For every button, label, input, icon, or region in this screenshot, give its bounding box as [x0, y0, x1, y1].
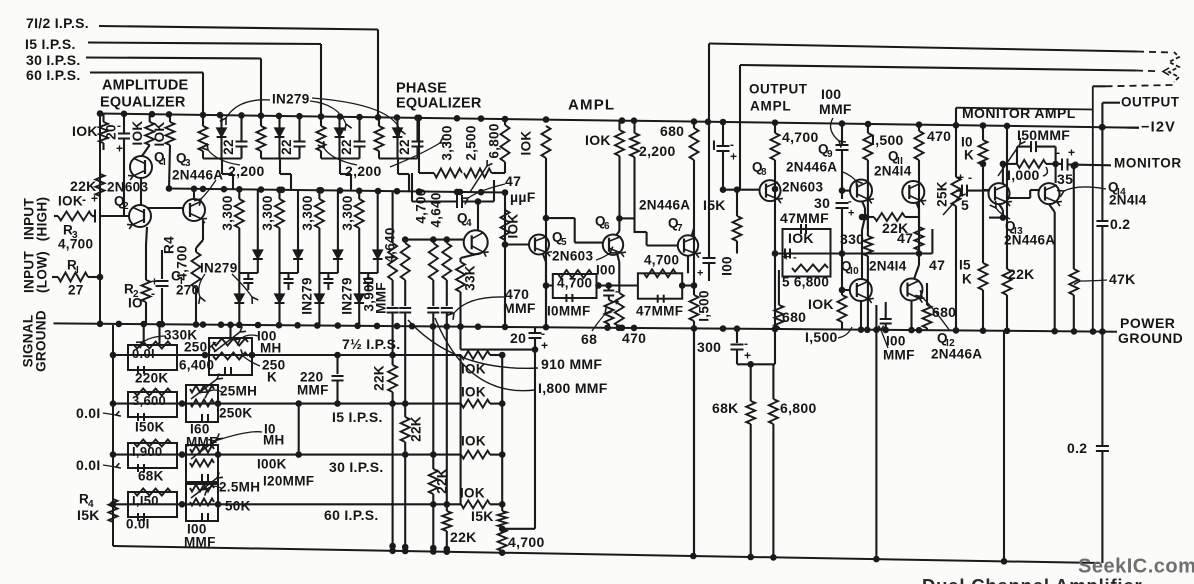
- svg-text:I,800 MMF: I,800 MMF: [538, 380, 608, 396]
- wire cell 1 bus: [203, 157, 242, 159]
- junction: [916, 327, 923, 334]
- svg-text:I0MMF: I0MMF: [547, 304, 591, 319]
- wire 10K ladder left rail: [460, 355, 462, 504]
- inductor box row 4: [186, 484, 218, 521]
- svg-text:7½ I.P.S.: 7½ I.P.S.: [342, 336, 400, 352]
- junction: [502, 189, 509, 196]
- capacitor C1 270: [161, 250, 163, 279]
- junction: [1071, 328, 1078, 335]
- junction: [772, 119, 779, 126]
- record head dashed coil: [1169, 52, 1179, 82]
- wire bus 15ips: [88, 43, 321, 45]
- junction: [318, 187, 325, 194]
- svg-text:-: -: [82, 192, 86, 206]
- junction: [193, 321, 200, 328]
- svg-text:2N603: 2N603: [107, 180, 148, 195]
- svg-text:-: -: [1056, 145, 1060, 159]
- svg-text:IN279: IN279: [300, 277, 315, 315]
- junction: [1099, 124, 1106, 131]
- junction: [218, 321, 225, 328]
- junction: [276, 113, 283, 120]
- svg-text:30 I.P.S.: 30 I.P.S.: [26, 52, 81, 68]
- junction: [200, 112, 207, 119]
- svg-text:4: 4: [466, 218, 472, 229]
- transistor Q14: [1039, 183, 1060, 204]
- callout arc to diode cell1: [226, 100, 270, 118]
- svg-text:30: 30: [814, 195, 830, 211]
- svg-text:−I2V: −I2V: [1141, 119, 1176, 135]
- junction: [604, 324, 611, 331]
- svg-text:68K: 68K: [712, 400, 739, 416]
- junction: [200, 321, 207, 328]
- transistor Q12: [901, 279, 923, 301]
- svg-text:K: K: [964, 148, 974, 163]
- svg-text:470: 470: [622, 330, 646, 346]
- svg-text:OUTPUT: OUTPUT: [1121, 95, 1180, 110]
- wire to 68K 6800: [737, 363, 775, 365]
- svg-text:22: 22: [339, 139, 354, 155]
- wire Q13 emitter-Q14 base: [1008, 197, 1030, 199]
- wire ips row 1: [113, 354, 461, 356]
- svg-text:IOK: IOK: [506, 214, 521, 239]
- svg-text:2,200: 2,200: [345, 163, 382, 179]
- svg-text:I00: I00: [886, 334, 906, 349]
- junction: [873, 327, 880, 334]
- junction: [140, 321, 147, 328]
- diode 1N279 lower-b number 3: [314, 294, 324, 303]
- wire cell bus lower 3: [319, 272, 338, 274]
- svg-text:(HIGH): (HIGH): [35, 197, 50, 242]
- junction bottom: [690, 553, 697, 560]
- svg-text:K: K: [962, 272, 972, 287]
- svg-text:3,300: 3,300: [260, 195, 275, 230]
- svg-text:2N603: 2N603: [782, 180, 823, 195]
- svg-text:680: 680: [782, 309, 806, 325]
- wire feedback line: [775, 252, 932, 254]
- svg-text:3,300: 3,300: [300, 195, 315, 230]
- resistor 1,000 pot: [1017, 160, 1046, 168]
- svg-text:I,500: I,500: [805, 329, 838, 345]
- wire cell bus lower 1: [239, 272, 257, 274]
- svg-text:MMF: MMF: [503, 300, 536, 316]
- diode 1N279 lower-b number 2: [275, 294, 285, 303]
- transistor Q4: [464, 230, 488, 254]
- svg-text:MONITOR AMPL: MONITOR AMPL: [962, 105, 1076, 121]
- svg-text:5: 5: [961, 197, 969, 213]
- wire input columns: [123, 139, 125, 217]
- junction: [166, 185, 173, 192]
- svg-text:I0: I0: [850, 266, 859, 277]
- wire cell bus lower 2: [280, 272, 299, 274]
- svg-text:EQUALIZER: EQUALIZER: [100, 94, 186, 110]
- svg-text:2N4I4: 2N4I4: [869, 259, 907, 274]
- svg-text:I: I: [163, 157, 166, 168]
- junction: [475, 323, 482, 330]
- wire Q10 base: [842, 289, 849, 291]
- junction: [191, 186, 198, 193]
- junction row 3: [179, 451, 186, 458]
- svg-text:6,800: 6,800: [487, 123, 502, 158]
- diode 1N279 lower-a number 3: [337, 191, 339, 251]
- wire lower-left border: [112, 325, 114, 546]
- svg-text:IOK: IOK: [461, 385, 486, 400]
- svg-text:2N446A: 2N446A: [639, 198, 690, 213]
- equalizer cell 2 resistor: [260, 116, 262, 126]
- svg-text:MMF: MMF: [819, 101, 852, 117]
- junction: [502, 324, 509, 331]
- RC box row 1: [128, 345, 177, 370]
- junction: [1090, 328, 1097, 335]
- svg-text:0.2: 0.2: [1110, 216, 1130, 232]
- svg-text:3,300: 3,300: [440, 125, 455, 160]
- capacitor small cell 3: [327, 273, 329, 278]
- transistor Q2: [129, 205, 151, 227]
- wire cell 4 drop: [397, 159, 399, 175]
- junction: [1004, 123, 1011, 130]
- wire stubs from signal ground to row1 boxes: [143, 324, 145, 345]
- wire column x694 long: [693, 122, 695, 128]
- svg-text:IN279: IN279: [272, 92, 310, 107]
- wire output line 3 dashed: [1106, 85, 1174, 86]
- wire Q10 emitter: [860, 301, 862, 330]
- svg-text:6,400: 6,400: [179, 358, 214, 373]
- svg-text:POWER: POWER: [1120, 315, 1175, 331]
- svg-text:2N446A: 2N446A: [931, 347, 982, 362]
- junction: [116, 321, 123, 328]
- svg-text:2: 2: [123, 201, 129, 212]
- junction: [916, 121, 923, 128]
- resistor 47 on Q11 emitter: [916, 202, 919, 209]
- wire Q13 base: [983, 189, 989, 191]
- transistor Q9: [850, 180, 872, 202]
- wire Q4 emitter feedback to 20 cap: [459, 327, 461, 350]
- svg-text:µµF: µµF: [510, 189, 536, 205]
- svg-text:-: -: [848, 196, 852, 208]
- junction: [619, 325, 626, 332]
- RC box row 4: [128, 492, 177, 517]
- label 2N603 arrow: [596, 253, 610, 260]
- wire signal ground rail: [54, 323, 1118, 331]
- svg-text:5 6,800: 5 6,800: [782, 275, 829, 290]
- junction: [276, 322, 283, 329]
- svg-text:60 I.P.S.: 60 I.P.S.: [26, 67, 81, 83]
- svg-text:+: +: [116, 141, 123, 155]
- junction bottom: [873, 556, 880, 563]
- junction: [865, 121, 872, 128]
- svg-text:6,800: 6,800: [780, 400, 817, 416]
- wire cell 3 bus: [321, 157, 360, 159]
- monitor box: [956, 108, 1093, 110]
- junction: [430, 323, 437, 330]
- svg-text:MMF: MMF: [297, 383, 329, 398]
- svg-text:I5 I.P.S.: I5 I.P.S.: [25, 36, 76, 52]
- wire Q3 collector: [193, 190, 195, 199]
- svg-text:-: -: [968, 170, 972, 184]
- inductor box row 1: [209, 338, 252, 375]
- svg-text:3,600: 3,600: [132, 393, 166, 408]
- wire box2 to 1500: [682, 284, 694, 286]
- svg-text:MMF: MMF: [883, 348, 915, 363]
- svg-text:6: 6: [604, 221, 610, 232]
- junction: [772, 326, 779, 333]
- callout arc to diode cell4: [312, 98, 400, 130]
- svg-text:25K: 25K: [935, 181, 950, 207]
- svg-text:4,700: 4,700: [175, 245, 190, 280]
- junction: [457, 323, 464, 330]
- junction bottom: [499, 549, 506, 556]
- junction bottom: [389, 548, 396, 555]
- junction: [631, 325, 638, 332]
- capacitor 47MMF box: [783, 229, 831, 254]
- junction: [279, 187, 286, 194]
- svg-text:IN279: IN279: [340, 277, 355, 315]
- junction: [953, 122, 960, 129]
- junction bottom: [402, 548, 409, 555]
- cropped caption text: [922, 575, 1142, 584]
- junction: [543, 324, 550, 331]
- wire Q7 emitter: [687, 256, 689, 273]
- svg-text:35: 35: [1057, 171, 1073, 187]
- svg-text:470: 470: [927, 128, 951, 144]
- junction: [159, 321, 166, 328]
- svg-text:22K: 22K: [372, 365, 387, 391]
- svg-text:22: 22: [279, 139, 294, 155]
- junction bottom: [1001, 558, 1008, 565]
- wire Q7 collector: [692, 228, 695, 237]
- svg-text:7: 7: [677, 223, 683, 234]
- junction: [444, 236, 451, 243]
- wire Q5 emitter: [543, 254, 546, 262]
- svg-text:+: +: [848, 208, 855, 220]
- svg-text:60 I.P.S.: 60 I.P.S.: [324, 507, 379, 523]
- svg-text:IOK: IOK: [788, 230, 814, 246]
- capacitor cell 3: [358, 117, 360, 141]
- wire output terminal: [1102, 102, 1120, 104]
- svg-text:I5 I.P.S.: I5 I.P.S.: [332, 409, 383, 425]
- junction: [394, 323, 401, 330]
- capacitor small cell 2: [287, 273, 289, 278]
- junction: [478, 189, 485, 196]
- svg-text:47: 47: [897, 230, 913, 246]
- svg-text:330: 330: [840, 231, 864, 247]
- svg-text:2,200: 2,200: [639, 143, 676, 159]
- junction: [1099, 328, 1106, 335]
- svg-text:9: 9: [827, 149, 833, 160]
- junction bottom: [770, 554, 777, 561]
- junction: [294, 322, 301, 329]
- transistor Q6: [603, 235, 623, 255]
- junction bottom: [444, 548, 451, 555]
- wire Q12 emitter: [910, 300, 912, 330]
- wire cell 4 bus: [379, 157, 418, 159]
- transistor Q1: [130, 156, 152, 178]
- junction: [316, 187, 323, 194]
- svg-text:22K: 22K: [409, 416, 424, 442]
- capacitor 100 MMF bottom: [885, 302, 887, 318]
- junction: [409, 323, 416, 330]
- junction: [953, 327, 960, 334]
- svg-text:4,700: 4,700: [414, 188, 429, 223]
- svg-text:+: +: [730, 149, 737, 163]
- svg-text:2N446A: 2N446A: [1004, 233, 1055, 248]
- capacitor 47 uuF: [456, 195, 458, 208]
- callout arc to diode cell2: [310, 101, 346, 124]
- svg-text:0.0I: 0.0I: [126, 517, 150, 532]
- svg-text:3,300: 3,300: [340, 195, 355, 230]
- svg-text:MH: MH: [263, 433, 285, 448]
- wire bus 7.5ips: [99, 26, 378, 30]
- svg-text:+: +: [744, 348, 751, 362]
- junction: [97, 110, 104, 117]
- junction: [616, 325, 623, 332]
- wire chain: [418, 118, 420, 173]
- wire: [411, 173, 413, 202]
- svg-text:22: 22: [221, 139, 236, 155]
- capacitor cell 1: [240, 115, 242, 141]
- wire cell 2 drop: [279, 159, 281, 175]
- svg-text:250K: 250K: [219, 406, 252, 421]
- junction: [314, 322, 321, 329]
- svg-text:MMF: MMF: [374, 282, 389, 314]
- junction: [444, 323, 451, 330]
- junction: [236, 322, 243, 329]
- wire cell 3 drop: [339, 159, 341, 175]
- junction: [149, 111, 156, 118]
- wire -12V supply rail: [100, 114, 1139, 128]
- diode 1N279 lower-b number 4: [354, 294, 364, 303]
- resistor 2,200 ampl: [630, 133, 639, 157]
- wire feedback to ladder: [502, 528, 535, 530]
- wire output line 1: [709, 44, 1137, 52]
- junction: [318, 113, 325, 120]
- capacitor 100MMF q9 input: [841, 124, 843, 144]
- svg-text:27: 27: [68, 283, 84, 298]
- svg-text:0.0I: 0.0I: [76, 457, 101, 473]
- svg-text:I50MMF: I50MMF: [1017, 127, 1070, 143]
- svg-text:8: 8: [761, 167, 767, 178]
- wire Q4 base line: [403, 239, 463, 241]
- junction: [375, 114, 382, 121]
- junction: [705, 119, 712, 126]
- svg-text:4,700: 4,700: [782, 129, 819, 145]
- capacitor cell 2: [298, 116, 300, 141]
- junction: [227, 322, 234, 329]
- capacitor small cell 4: [367, 273, 369, 278]
- svg-text:220K: 220K: [135, 371, 168, 386]
- equalizer cell 1 resistor: [202, 115, 204, 126]
- svg-text:IO: IO: [128, 296, 143, 311]
- junction: [374, 323, 381, 330]
- junction: [356, 188, 363, 195]
- junction: [221, 186, 228, 193]
- junction: [691, 325, 698, 332]
- svg-text:4,640: 4,640: [429, 192, 444, 227]
- junction: [543, 116, 550, 123]
- svg-text:30 I.P.S.: 30 I.P.S.: [329, 459, 384, 475]
- junction: [236, 186, 243, 193]
- wire ips row 4: [113, 503, 461, 505]
- wire monitor line: [1068, 163, 1112, 166]
- wire Q2 collector: [148, 207, 183, 209]
- svg-text:I50K: I50K: [135, 420, 165, 435]
- junction: [454, 115, 461, 122]
- junction: [276, 187, 283, 194]
- wire bottom verticals: [693, 328, 695, 556]
- junction: [217, 112, 224, 119]
- svg-text:-: -: [151, 286, 155, 300]
- wire Q13 Q14 bottoms: [999, 204, 1003, 210]
- svg-text:+: +: [541, 338, 548, 352]
- svg-text:0.0I: 0.0I: [76, 405, 101, 421]
- svg-text:47: 47: [505, 173, 521, 189]
- svg-text:300: 300: [697, 339, 721, 355]
- wire bottom ground rail: [113, 546, 1100, 563]
- RC box row 3: [128, 443, 177, 468]
- svg-text:-: -: [117, 118, 121, 132]
- wire column x546: [545, 158, 547, 327]
- wire Q6 emitter: [617, 253, 619, 262]
- junction: [166, 111, 173, 118]
- junction row 1: [202, 352, 209, 359]
- junction: [502, 116, 509, 123]
- svg-text:IOK: IOK: [130, 121, 145, 146]
- junction: [156, 321, 163, 328]
- wire 2,200 to Q7 base step: [634, 231, 647, 233]
- svg-text:910 MMF: 910 MMF: [541, 356, 602, 372]
- wire 1000 left to Q13: [1003, 163, 1017, 165]
- wire equalizer mid rail: [169, 189, 505, 193]
- junction: [980, 122, 987, 129]
- svg-text:2N4I4: 2N4I4: [874, 164, 912, 179]
- junction: [631, 117, 638, 124]
- svg-text:I,000: I,000: [1007, 167, 1040, 183]
- junction: [1051, 328, 1058, 335]
- svg-text:I00K: I00K: [257, 457, 287, 472]
- junction: [457, 189, 464, 196]
- wire Q4 collector: [477, 202, 479, 231]
- svg-text:+: +: [1068, 145, 1075, 159]
- svg-text:AMPL: AMPL: [568, 97, 615, 114]
- svg-text:IOK: IOK: [808, 296, 834, 312]
- diode 1N279 lower-a number 2: [297, 190, 299, 250]
- capacitor small cell 1: [247, 273, 249, 278]
- svg-text:22K: 22K: [450, 529, 477, 545]
- svg-text:+: +: [697, 268, 704, 280]
- svg-text:I5K: I5K: [703, 197, 726, 213]
- svg-text:47MMF: 47MMF: [636, 304, 683, 319]
- junction: [354, 323, 361, 330]
- junction: [619, 117, 626, 124]
- svg-text:(LOW): (LOW): [35, 251, 50, 293]
- svg-text:IOK: IOK: [58, 194, 83, 209]
- capacitor 4,700 box right: [638, 273, 682, 298]
- svg-text:IOK: IOK: [519, 131, 534, 156]
- svg-text:MH: MH: [260, 341, 282, 356]
- svg-text:+: +: [957, 170, 964, 184]
- svg-text:4,700: 4,700: [644, 253, 679, 268]
- wire output line 1 dashed: [1137, 52, 1171, 53]
- inductor box row 3: [186, 445, 218, 482]
- junction: [258, 186, 265, 193]
- wire left border: [99, 114, 101, 324]
- svg-text:I: I: [712, 137, 716, 153]
- svg-text:47: 47: [929, 257, 945, 273]
- junction: [255, 322, 262, 329]
- svg-text:AMPL: AMPL: [750, 99, 791, 114]
- svg-text:4,700: 4,700: [58, 237, 93, 252]
- wire cell 2 bus: [261, 157, 300, 159]
- svg-text:20: 20: [510, 330, 526, 346]
